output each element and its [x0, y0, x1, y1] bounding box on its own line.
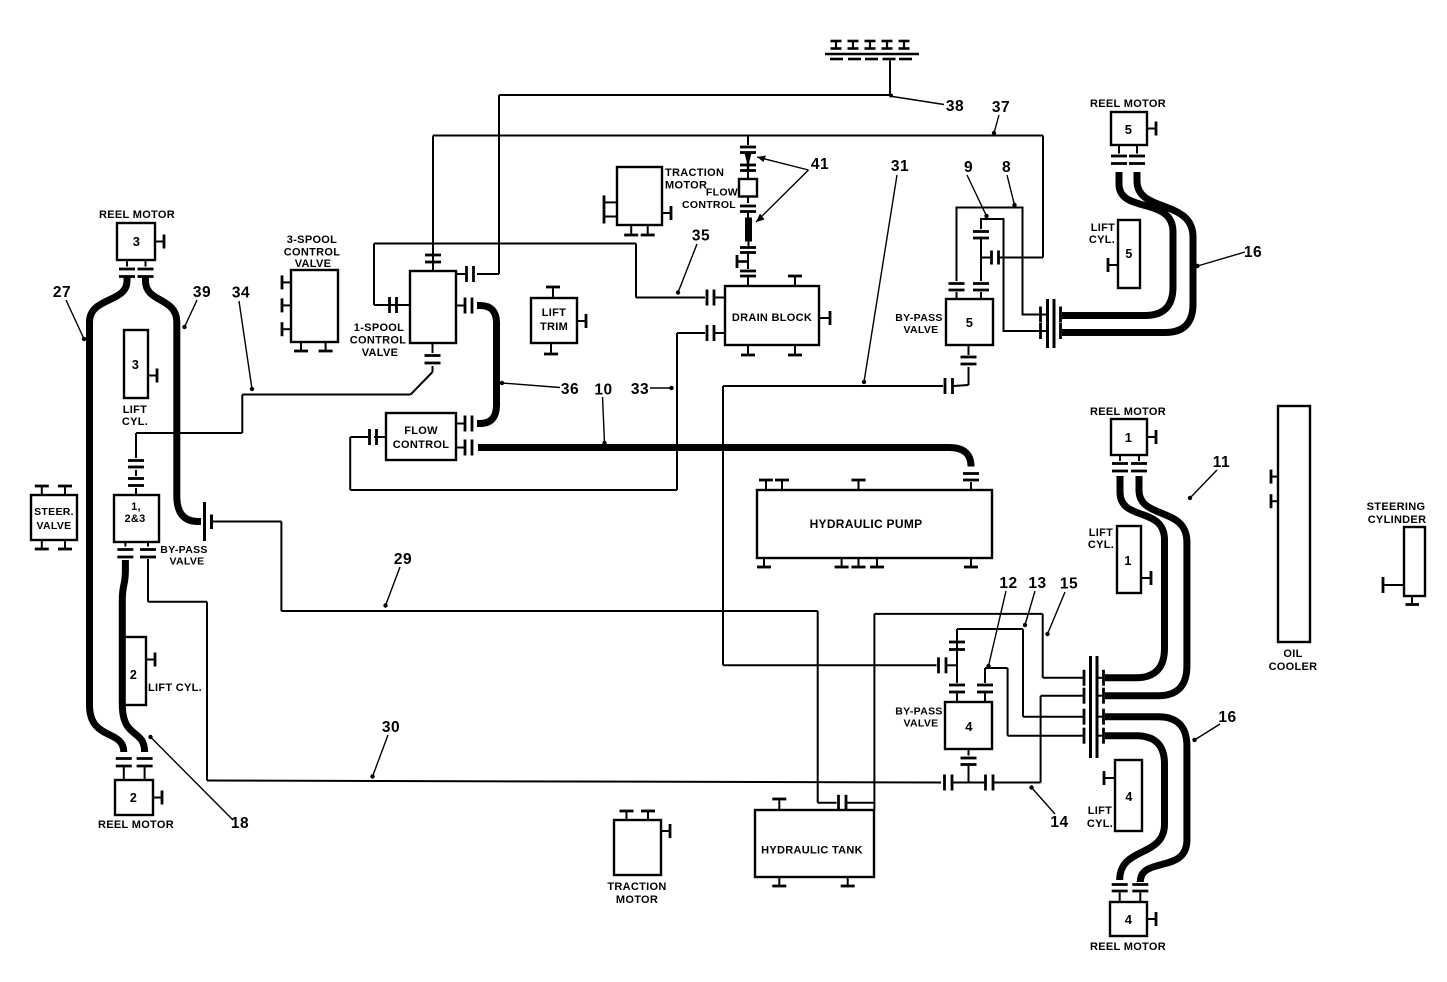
pump bottom port 2	[835, 558, 849, 567]
label 31	[862, 158, 909, 384]
3-spool left port 1	[282, 275, 291, 289]
oil cooler label	[1269, 648, 1318, 673]
lift cyl 5	[1118, 220, 1140, 288]
reel motor 4	[1110, 902, 1147, 936]
coupling reel motor 5 right port	[1129, 145, 1145, 164]
lift trim	[531, 298, 577, 343]
svg-text:STEER.: STEER.	[34, 506, 74, 518]
coupling reel motor 5 left port	[1111, 145, 1127, 164]
svg-text:CYL.: CYL.	[1087, 818, 1113, 830]
wire 38 horizontal	[499, 94, 893, 98]
svg-text:TRACTION: TRACTION	[665, 167, 724, 179]
bulkhead coupling to wire 29	[205, 502, 219, 541]
svg-text:CONTROL: CONTROL	[393, 439, 449, 451]
tank bottom port 1	[772, 877, 786, 886]
by-pass valve 4	[945, 702, 992, 749]
svg-text:5: 5	[966, 315, 974, 330]
svg-text:16: 16	[1218, 709, 1236, 726]
flow control small box	[739, 179, 757, 197]
coupling below flow control small	[740, 197, 756, 219]
lift cyl 3	[124, 330, 148, 398]
wire 37 to coupling	[1000, 257, 1044, 259]
svg-text:14: 14	[1050, 814, 1068, 831]
traction motor top left port 1	[604, 195, 617, 209]
3-spool control valve label	[284, 234, 340, 270]
wire 31 vertical	[722, 386, 724, 665]
pump top port 2	[775, 480, 789, 490]
coupling bypass123 bottom right	[140, 542, 156, 602]
lift cyl 3 stub	[148, 369, 157, 383]
coupling on wire 31	[945, 378, 953, 394]
lift cyl 1 label	[1088, 527, 1114, 551]
wire 14 horizontal	[994, 782, 1041, 784]
bulkhead coupling set 5	[1039, 299, 1061, 348]
reel motor 5	[1111, 112, 1147, 145]
svg-text:16: 16	[1244, 244, 1262, 261]
reel motor 1 right stub	[1147, 430, 1156, 444]
svg-text:VALVE: VALVE	[37, 520, 72, 532]
wire 37 top horizontal	[433, 135, 1043, 137]
pump bottom port 1	[757, 558, 771, 567]
label 41	[756, 156, 829, 223]
wire 35 from left port	[374, 297, 410, 313]
bypass 4 riser left	[956, 629, 958, 683]
lift cyl 1 stub	[1141, 571, 1151, 585]
drain block right stub	[819, 311, 830, 325]
svg-text:CONTROL: CONTROL	[284, 247, 340, 259]
steer valve bottom port 1	[35, 540, 49, 549]
svg-text:VALVE: VALVE	[295, 258, 332, 270]
svg-text:DRAIN BLOCK: DRAIN BLOCK	[732, 312, 812, 324]
label 8	[1002, 159, 1017, 207]
coupling 1-spool right lower	[456, 298, 472, 314]
label 15	[1045, 576, 1078, 637]
hose reel motor 5 right	[1062, 172, 1193, 333]
hose coupling port 2 to reel motor 1 right	[1105, 476, 1187, 696]
svg-text:33: 33	[631, 381, 649, 398]
reel motor 4 label	[1090, 941, 1166, 953]
svg-text:HYDRAULIC TANK: HYDRAULIC TANK	[761, 845, 863, 857]
3-spool left port 3	[282, 322, 291, 336]
svg-text:31: 31	[891, 158, 909, 175]
svg-text:TRIM: TRIM	[540, 321, 568, 333]
coupling 41 upper	[740, 147, 756, 153]
coupling bypass 4 bottom	[961, 749, 977, 783]
wire to bypass 4 left port	[723, 664, 937, 666]
coupling bypass 5 bottom	[961, 345, 977, 364]
svg-text:27: 27	[53, 284, 71, 301]
reel motor 1 label	[1090, 406, 1166, 418]
traction motor bottom label	[607, 881, 666, 906]
by-pass valve 5 label	[895, 312, 942, 336]
label 38	[893, 97, 965, 116]
tank top port	[772, 799, 786, 810]
reel motor 3 label	[99, 209, 175, 221]
coupling on wire 30 left of valve 4	[945, 775, 953, 791]
svg-text:3-SPOOL: 3-SPOOL	[287, 234, 337, 246]
svg-text:1-SPOOL: 1-SPOOL	[354, 322, 404, 334]
reel motor 5 label	[1090, 98, 1166, 110]
coupling reel motor 3 left port	[119, 260, 135, 277]
svg-text:30: 30	[382, 719, 400, 736]
3-spool bottom port 2	[319, 342, 333, 351]
svg-text:VALVE: VALVE	[170, 556, 205, 568]
svg-text:STEERING: STEERING	[1367, 501, 1426, 513]
traction motor bottom top port 1	[620, 811, 634, 820]
3-spool left port 2	[282, 298, 291, 312]
svg-text:MOTOR: MOTOR	[665, 180, 707, 192]
lift cyl 1	[1117, 526, 1141, 593]
wire 34 vertical	[241, 395, 243, 434]
flow control small label	[682, 187, 738, 212]
hydraulic pump	[757, 490, 992, 558]
pump bottom port 5	[964, 558, 978, 567]
hose coupling port 3 to reel motor 4 right	[1105, 717, 1187, 882]
wire 29 tank link	[818, 795, 875, 811]
steer valve bottom port 2	[58, 540, 72, 549]
lift cyl 2 stub	[146, 653, 155, 667]
svg-text:VALVE: VALVE	[904, 324, 939, 336]
svg-text:11: 11	[1213, 454, 1230, 471]
steering cylinder label	[1367, 501, 1427, 526]
coupling flow control upper right	[456, 416, 472, 432]
gearbox symbol	[825, 41, 919, 59]
svg-text:LIFT: LIFT	[1088, 805, 1112, 817]
svg-text:4: 4	[1125, 912, 1133, 927]
svg-text:10: 10	[594, 382, 612, 399]
label 33	[631, 381, 674, 398]
hose reel motor 3 left down to reel motor 2	[90, 276, 128, 752]
svg-text:35: 35	[692, 228, 710, 245]
coupling reel motor 3 right port	[138, 260, 154, 277]
hose coupling port 1 to reel motor 1 left	[1105, 476, 1165, 678]
coupling 1-spool top	[425, 252, 441, 271]
coupling 9 capacitor	[973, 232, 989, 239]
oil cooler stub 2	[1271, 494, 1278, 508]
svg-text:REEL MOTOR: REEL MOTOR	[1090, 941, 1166, 953]
pump top port 3	[852, 480, 866, 490]
lift cyl 3 label	[122, 404, 148, 428]
reel motor 4 right stub	[1147, 912, 1156, 926]
3-spool control valve	[291, 270, 338, 342]
reel motor 2 right stub	[153, 791, 162, 805]
label 9	[964, 159, 989, 218]
coupling 1-spool bottom	[425, 343, 441, 372]
svg-text:VALVE: VALVE	[362, 347, 399, 359]
wire 29 horizontal long	[281, 610, 817, 612]
wire 9 riser	[980, 239, 982, 281]
wire 34 diagonal to 1-spool valve	[411, 372, 433, 395]
lift trim right stub	[577, 314, 586, 328]
svg-text:4: 4	[1125, 790, 1132, 804]
lift cyl 2 label	[148, 682, 202, 694]
reel motor 5 right stub	[1147, 122, 1156, 136]
lift cyl 4	[1115, 760, 1142, 831]
coupling pump top	[963, 474, 979, 491]
label 27	[53, 284, 86, 341]
steer valve	[31, 495, 77, 540]
svg-text:CONTROL: CONTROL	[350, 335, 406, 347]
svg-text:5: 5	[1125, 247, 1132, 261]
wire 29 horizontal upper	[212, 521, 281, 523]
check 41 upper arrow	[745, 153, 752, 170]
flow control left port	[350, 429, 386, 445]
hose reel motor 5 left	[1062, 172, 1173, 316]
wire 35 horizontal	[374, 243, 636, 245]
by-pass valve 1 2 3 label	[160, 544, 207, 568]
lift cyl 4 stub	[1104, 771, 1115, 785]
wire 38 into valve port	[456, 266, 499, 282]
svg-text:LIFT: LIFT	[542, 307, 566, 319]
pump top port 1	[759, 480, 773, 490]
lift trim top port	[546, 287, 560, 298]
by-pass valve 4 label	[895, 706, 942, 730]
wire 31 to bypass 5	[954, 367, 969, 386]
pump bottom port 4	[870, 558, 884, 567]
wire 31 horizontal	[723, 385, 943, 387]
svg-text:CYL.: CYL.	[1088, 539, 1114, 551]
svg-text:8: 8	[1002, 159, 1011, 176]
wire 34 horizontal right	[242, 394, 410, 396]
wire 29 down to tank	[817, 611, 819, 803]
coupling bypass 4 riser left upper	[949, 642, 965, 650]
wire 30 upper jog	[148, 602, 207, 781]
svg-text:CYLINDER: CYLINDER	[1368, 514, 1427, 526]
coupling bypass 4 left	[939, 657, 958, 673]
svg-text:39: 39	[193, 284, 211, 301]
svg-text:3: 3	[132, 358, 139, 372]
wire 13 from bypass 4	[957, 629, 1084, 717]
wire 8 top loop	[957, 208, 1040, 315]
svg-text:MOTOR: MOTOR	[616, 894, 658, 906]
hose reel motor 3 right down to valve coupling	[146, 276, 202, 522]
wire 38 vertical	[498, 95, 500, 274]
coupling bypass 5 top right	[973, 284, 989, 300]
svg-text:38: 38	[946, 98, 964, 115]
wire 34 horizontal left	[136, 432, 242, 434]
traction motor bottom	[614, 820, 661, 875]
coupling on wire 30 right of valve 4	[986, 775, 994, 791]
hydraulic tank	[755, 810, 874, 877]
coupling reel motor 4 left port	[1112, 885, 1128, 903]
label 11	[1188, 454, 1230, 500]
bulkhead coupling set 4	[1084, 656, 1104, 758]
wire 30 to valve 4 port	[953, 782, 984, 784]
traction motor top bottom port 2	[641, 225, 655, 235]
svg-text:VALVE: VALVE	[904, 718, 939, 730]
svg-text:29: 29	[394, 551, 412, 568]
drain block	[725, 286, 819, 345]
wire 12 from bypass 4	[985, 668, 1084, 736]
svg-text:LIFT: LIFT	[123, 404, 147, 416]
label 39	[182, 284, 211, 329]
svg-text:2: 2	[130, 668, 137, 682]
tank bottom port 2	[841, 877, 855, 886]
wire 35 up	[373, 244, 375, 306]
svg-text:CONTROL: CONTROL	[682, 199, 736, 211]
traction motor bottom top port 2	[641, 811, 655, 820]
lift trim bottom port	[544, 343, 558, 354]
traction motor top right stub	[662, 206, 671, 220]
svg-text:LIFT: LIFT	[1089, 527, 1113, 539]
drain block bottom port 1	[741, 345, 755, 355]
steering cylinder stub	[1383, 577, 1404, 593]
wire 35 jog down	[635, 244, 637, 298]
hose 10	[478, 448, 971, 467]
coupling reel motor 2 right port	[137, 759, 153, 781]
label 35	[676, 228, 710, 295]
svg-text:1: 1	[1124, 554, 1131, 568]
svg-text:1,: 1,	[131, 501, 141, 513]
svg-text:REEL MOTOR: REEL MOTOR	[99, 209, 175, 221]
traction motor bottom right stub	[661, 824, 670, 838]
coupling flow control lower right	[456, 440, 472, 456]
coupling 41 mid	[740, 165, 756, 179]
wire 15 horizontal	[874, 613, 1042, 615]
wire 29 vertical	[280, 522, 282, 612]
label 13	[1023, 575, 1047, 627]
1-spool control valve label	[350, 322, 406, 359]
reel motor 3	[117, 223, 155, 260]
label 37	[992, 99, 1010, 135]
flow control valve	[386, 413, 456, 460]
svg-text:15: 15	[1060, 576, 1078, 593]
hose 36	[477, 306, 497, 424]
wire drain block riser	[747, 136, 749, 146]
label 34	[232, 285, 254, 392]
coupling reel motor 4 right port	[1132, 885, 1148, 903]
svg-text:FLOW: FLOW	[404, 425, 438, 437]
1-spool control valve	[410, 271, 456, 343]
svg-text:BY-PASS: BY-PASS	[895, 312, 942, 324]
coupling reel motor 1 right port	[1131, 455, 1147, 471]
svg-text:REEL MOTOR: REEL MOTOR	[98, 819, 174, 831]
svg-text:COOLER: COOLER	[1269, 661, 1318, 673]
traction motor top label	[665, 167, 724, 192]
coupling reel motor 1 left port	[1112, 455, 1128, 471]
svg-text:13: 13	[1028, 575, 1046, 592]
wire tank riser	[873, 614, 875, 810]
wire 35 to drain block	[636, 290, 725, 306]
plug 41 lower	[745, 218, 752, 247]
steering cylinder	[1404, 527, 1425, 596]
lift cyl 4 label	[1087, 805, 1113, 830]
coupling bypass 4 riser left lower	[949, 685, 965, 702]
wire 33 horizontal	[350, 489, 677, 491]
svg-text:TRACTION: TRACTION	[607, 881, 666, 893]
oil cooler	[1278, 406, 1310, 642]
wire 14 to coupling port 2	[1041, 695, 1084, 697]
tee coupling drain block top	[737, 254, 748, 269]
svg-text:CYL.: CYL.	[1089, 234, 1115, 246]
svg-text:18: 18	[231, 815, 249, 832]
label 29	[383, 551, 412, 608]
label 10	[594, 382, 612, 446]
svg-text:5: 5	[1125, 122, 1133, 137]
hose bypass123 to reel motor 2 right	[122, 560, 144, 752]
coupling drain block top port	[740, 271, 756, 286]
svg-text:9: 9	[964, 159, 973, 176]
svg-text:BY-PASS: BY-PASS	[160, 544, 207, 556]
lift cyl 5 label	[1089, 222, 1115, 246]
svg-text:BY-PASS: BY-PASS	[895, 706, 942, 718]
oil cooler stub 1	[1271, 470, 1278, 484]
lift cyl 2	[122, 637, 146, 705]
coupling bypass 4 riser right	[977, 685, 993, 702]
wire 14 vertical	[1040, 696, 1042, 783]
coupling bypass123 bottom left	[117, 542, 133, 557]
steering cylinder rod	[1406, 596, 1420, 605]
reel motor 2 label	[98, 819, 174, 831]
svg-text:FLOW: FLOW	[706, 187, 738, 199]
svg-text:2&3: 2&3	[124, 513, 145, 525]
wire 37 vertical	[1042, 136, 1044, 258]
reel motor 1	[1111, 419, 1147, 455]
label 36	[500, 381, 579, 398]
hose coupling port 4 to reel motor 4 left	[1105, 736, 1165, 880]
by-pass valve 5	[946, 299, 993, 345]
wire to 1-spool valve top	[432, 136, 434, 253]
label 14	[1029, 785, 1068, 831]
lift cyl 5 stub	[1108, 258, 1118, 272]
label 16 bottom	[1192, 709, 1236, 742]
pump bottom port 3	[852, 558, 866, 567]
svg-text:LIFT CYL.: LIFT CYL.	[148, 682, 202, 694]
steer valve top port 2	[58, 486, 72, 495]
svg-text:3: 3	[133, 234, 141, 249]
wire 33 vertical	[676, 333, 678, 490]
wire 9 inner chain top	[981, 219, 1039, 331]
svg-text:HYDRAULIC PUMP: HYDRAULIC PUMP	[810, 517, 923, 531]
steer valve top port 1	[35, 486, 49, 495]
wire 15 to port 1	[1043, 677, 1084, 679]
svg-text:37: 37	[992, 99, 1010, 116]
traction motor top bottom port 1	[624, 225, 638, 235]
traction motor top left port 2	[604, 210, 617, 224]
svg-text:4: 4	[965, 719, 973, 734]
svg-text:LIFT: LIFT	[1091, 222, 1115, 234]
3-spool bottom port 1	[294, 342, 308, 351]
coupling bypass 5 top left	[949, 284, 965, 300]
wire 15 vertical	[1042, 614, 1044, 678]
wire 30 horizontal	[207, 781, 941, 783]
reel motor 3 right stub	[155, 235, 164, 249]
svg-text:REEL MOTOR: REEL MOTOR	[1090, 98, 1166, 110]
svg-text:REEL MOTOR: REEL MOTOR	[1090, 406, 1166, 418]
label 12	[986, 575, 1017, 668]
svg-text:CYL.: CYL.	[122, 416, 148, 428]
reel motor 2	[115, 780, 153, 815]
label 18	[148, 735, 249, 832]
svg-text:34: 34	[232, 285, 250, 302]
coupling bypass123 top	[128, 433, 144, 495]
bypass 4 riser right	[984, 668, 986, 683]
drain block top right port	[788, 276, 802, 286]
svg-text:41: 41	[811, 156, 829, 173]
svg-text:36: 36	[561, 381, 579, 398]
svg-text:1: 1	[1125, 430, 1133, 445]
wire 33 to drain block	[677, 325, 725, 341]
coupling reel motor 2 left port	[116, 759, 132, 781]
coupling above drain block	[740, 248, 756, 253]
tee to coupling 37	[981, 251, 999, 265]
label 30	[370, 719, 400, 779]
wire from gearbox	[889, 61, 891, 96]
drain block bottom port 2	[788, 345, 802, 355]
svg-text:2: 2	[130, 791, 137, 805]
label 16 top	[1195, 244, 1262, 268]
wire from flow control down	[349, 437, 351, 490]
